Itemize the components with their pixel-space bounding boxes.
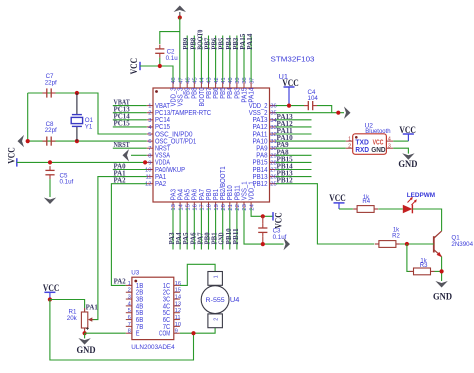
svg-text:PB8: PB8 — [190, 37, 197, 50]
wire PA1 (to R1 wiper) — [91, 177, 147, 320]
svg-text:GND: GND — [398, 159, 417, 169]
driver U3 ULN2003 body — [132, 277, 174, 339]
wire VSS_3 vertical — [179, 18, 181, 82]
svg-text:PB14: PB14 — [253, 167, 268, 174]
U2 pin 3 GND — [386, 147, 393, 149]
svg-text:VCC: VCC — [329, 193, 346, 203]
svg-text:11: 11 — [145, 175, 151, 181]
svg-text:2: 2 — [148, 111, 151, 117]
svg-text:3: 3 — [128, 294, 131, 300]
svg-text:45: 45 — [193, 77, 199, 83]
svg-text:1: 1 — [148, 104, 151, 110]
mcu U1 STM32F103 body — [153, 88, 270, 202]
power flag VCC (U2) — [399, 125, 416, 141]
power flag VCC (R1) — [43, 283, 60, 300]
capacitor C8 — [43, 140, 47, 142]
svg-text:Y1: Y1 — [85, 124, 93, 131]
svg-text:VDD_2: VDD_2 — [249, 103, 268, 110]
svg-text:RXD: RXD — [355, 147, 369, 154]
node VCC/C4 junction — [287, 104, 291, 108]
svg-text:PB10: PB10 — [227, 185, 234, 200]
svg-text:LEDPWM: LEDPWM — [407, 192, 435, 199]
svg-text:PC13/TAMPER-RTC: PC13/TAMPER-RTC — [155, 110, 211, 117]
svg-text:43: 43 — [207, 77, 213, 83]
wire U2 VCC — [393, 140, 408, 142]
ground flag VSS_1 — [284, 238, 291, 250]
module U2 Bluetooth body — [353, 134, 387, 155]
svg-text:PA1: PA1 — [155, 174, 166, 181]
capacitor C3 — [262, 224, 264, 228]
svg-text:R-555: R-555 — [206, 297, 225, 304]
wire COM to U4 pin2 node — [180, 328, 215, 333]
svg-text:VCC: VCC — [274, 212, 284, 228]
svg-text:OSC_IN/PD0: OSC_IN/PD0 — [155, 131, 193, 138]
svg-text:PB7: PB7 — [205, 37, 212, 50]
svg-text:10: 10 — [145, 168, 151, 174]
resistor R2 — [375, 243, 379, 245]
svg-text:3: 3 — [388, 144, 391, 150]
ground flag crystal rail — [18, 135, 25, 147]
svg-text:VDD_3: VDD_3 — [170, 87, 177, 106]
svg-text:PC13: PC13 — [114, 107, 131, 114]
wire VCC to R1 top — [50, 300, 85, 309]
svg-text:PA8: PA8 — [277, 149, 290, 156]
svg-text:PA1: PA1 — [114, 170, 127, 177]
svg-text:GND: GND — [371, 147, 385, 154]
svg-text:PA15: PA15 — [241, 87, 248, 102]
svg-text:PA0/WKUP: PA0/WKUP — [155, 167, 185, 174]
ground flag U2 — [402, 153, 414, 160]
svg-text:PC14: PC14 — [155, 117, 170, 124]
svg-text:PA8: PA8 — [256, 153, 267, 160]
svg-text:7: 7 — [148, 146, 151, 152]
ground flag VSSA — [123, 149, 130, 161]
svg-text:PB11: PB11 — [234, 185, 241, 200]
svg-text:1: 1 — [128, 281, 131, 287]
svg-text:46: 46 — [185, 77, 191, 83]
svg-text:36: 36 — [270, 104, 276, 110]
svg-text:PA9: PA9 — [256, 146, 267, 153]
svg-text:VBAT: VBAT — [114, 99, 131, 106]
svg-text:1: 1 — [348, 137, 351, 143]
node COM junction — [191, 331, 195, 335]
svg-text:PA10: PA10 — [253, 138, 268, 145]
svg-text:VCC: VCC — [129, 58, 139, 75]
U3 right pins — [159, 281, 182, 338]
wire VDD_2 rail — [276, 105, 304, 107]
svg-text:VDD_1: VDD_1 — [249, 181, 256, 200]
svg-text:PB6: PB6 — [212, 37, 219, 50]
svg-text:PB13: PB13 — [277, 171, 294, 178]
svg-text:3: 3 — [148, 118, 151, 124]
svg-text:18: 18 — [207, 204, 213, 210]
svg-text:VCC: VCC — [43, 283, 60, 293]
node top gnd — [178, 15, 182, 19]
wire 1C to U4 pin1 — [180, 264, 215, 285]
wire VDD_1 to VCC — [251, 208, 273, 216]
svg-text:PB14: PB14 — [277, 164, 294, 171]
svg-text:PA11: PA11 — [253, 131, 268, 138]
svg-text:8: 8 — [148, 153, 151, 159]
wire C3 leads — [262, 216, 264, 223]
svg-text:GND: GND — [219, 232, 226, 244]
wire VSSA to ground — [131, 154, 147, 156]
svg-text:PB2/BOOT1: PB2/BOOT1 — [220, 166, 227, 200]
svg-text:VCC: VCC — [373, 139, 384, 146]
svg-text:STM32F103: STM32F103 — [271, 55, 315, 64]
svg-text:PB9: PB9 — [185, 87, 192, 98]
svg-text:PA9: PA9 — [277, 142, 290, 149]
wire VCC rail to COM (bottom) — [50, 300, 194, 361]
svg-text:7: 7 — [128, 322, 131, 328]
svg-text:14: 14 — [175, 294, 182, 300]
svg-text:PB4: PB4 — [226, 37, 233, 50]
svg-text:PC15: PC15 — [155, 124, 170, 131]
svg-text:47: 47 — [178, 77, 184, 83]
mcu U1 bottom pins: stubs, numbers, names — [170, 166, 255, 210]
LED LEDPWM — [403, 197, 417, 214]
svg-text:PB12: PB12 — [277, 178, 294, 185]
svg-text:48: 48 — [171, 77, 177, 83]
wire PB12 to R2 — [276, 184, 375, 244]
wire R2 to base — [400, 243, 434, 245]
U3 left pins — [126, 281, 144, 338]
ground flag Q1 emitter — [435, 281, 447, 288]
svg-text:5: 5 — [148, 132, 151, 138]
svg-text:PA14: PA14 — [249, 87, 256, 102]
ground flag R1 — [78, 338, 90, 345]
wire C4 to VSS_2 rail — [317, 106, 332, 113]
power flag VCC (top left of U1) — [129, 58, 140, 75]
wire OSC_IN rail — [28, 93, 147, 134]
svg-text:9: 9 — [148, 160, 151, 166]
U2 pin 4 VCC — [386, 140, 393, 142]
svg-text:VSS_2: VSS_2 — [249, 110, 268, 117]
svg-text:VCC: VCC — [282, 78, 299, 88]
svg-text:2: 2 — [128, 288, 131, 294]
node VSS_2 — [336, 111, 340, 115]
transistor Q1 2N3904 — [434, 231, 442, 257]
mcu U1 right pins: stubs, numbers, names — [249, 103, 278, 188]
wire U2 GND — [393, 148, 408, 153]
wire C5 to ground — [49, 179, 51, 197]
svg-text:19: 19 — [214, 204, 220, 210]
svg-text:12: 12 — [175, 308, 181, 314]
svg-text:12: 12 — [145, 182, 151, 188]
svg-text:PA14: PA14 — [247, 33, 254, 50]
svg-text:20: 20 — [221, 204, 227, 210]
svg-text:PC15: PC15 — [114, 121, 131, 128]
wire R3 to emitter — [435, 270, 442, 272]
svg-text:PA6: PA6 — [192, 189, 199, 200]
wire gnd side vertical — [27, 93, 29, 141]
svg-text:OSC_OUT/PD1: OSC_OUT/PD1 — [155, 138, 196, 145]
svg-text:GND: GND — [77, 345, 96, 355]
wire PB14 — [276, 169, 312, 171]
svg-text:BOOT0: BOOT0 — [197, 29, 204, 50]
svg-text:42: 42 — [214, 77, 220, 83]
svg-text:PB0: PB0 — [206, 189, 213, 200]
svg-text:6: 6 — [148, 139, 151, 145]
wire base node down to R3 — [407, 244, 410, 271]
wire PA0 — [113, 169, 147, 171]
svg-text:9: 9 — [175, 329, 178, 335]
svg-text:38: 38 — [242, 77, 248, 83]
svg-text:PB8: PB8 — [192, 87, 199, 98]
wire PA8 — [276, 154, 312, 156]
svg-text:PA2: PA2 — [114, 178, 127, 185]
node base/R3 junction — [405, 242, 409, 246]
svg-text:0.1uf: 0.1uf — [60, 179, 74, 186]
svg-text:VSS_3: VSS_3 — [178, 87, 185, 106]
node VDDA junction — [143, 160, 147, 164]
capacitor C7 — [43, 92, 47, 94]
svg-text:VSS_1: VSS_1 — [241, 181, 248, 200]
wire PA10 to U2 TXD — [276, 140, 346, 142]
node R1 bottom / E junction — [83, 331, 87, 335]
svg-text:R3: R3 — [420, 263, 428, 269]
wire VCC to VDDA pin9 — [17, 161, 147, 163]
wire OSC_OUT rail — [28, 140, 147, 142]
svg-text:PA5: PA5 — [183, 232, 190, 245]
svg-text:PA12: PA12 — [253, 124, 268, 131]
svg-text:COM: COM — [159, 331, 170, 338]
svg-text:VSSA: VSSA — [155, 153, 170, 160]
svg-text:44: 44 — [200, 77, 206, 84]
node crystal top — [75, 91, 79, 95]
svg-text:PB10: PB10 — [226, 228, 233, 245]
wire emitter down — [441, 257, 443, 281]
wire PC14 — [113, 119, 147, 121]
wire E to R1 bottom — [85, 332, 126, 334]
wires top port nets PB9..PA14 — [187, 36, 251, 82]
svg-text:PB11: PB11 — [233, 228, 240, 245]
wire PA12 — [276, 126, 312, 128]
capacitor C2 — [159, 45, 161, 49]
capacitor C5 — [49, 166, 51, 170]
svg-text:PA3: PA3 — [169, 232, 176, 245]
svg-text:39: 39 — [235, 77, 241, 83]
svg-text:PB5: PB5 — [220, 87, 227, 98]
svg-text:2: 2 — [348, 144, 351, 150]
svg-text:ULN2003ADE4: ULN2003ADE4 — [131, 344, 175, 351]
svg-text:NRST: NRST — [114, 142, 131, 149]
node VCC bottom left — [48, 297, 52, 301]
svg-text:13: 13 — [171, 204, 177, 210]
power flag VCC (R4) — [329, 193, 346, 209]
svg-text:E: E — [136, 331, 140, 338]
mcu U1 left pins: stubs, numbers, names — [145, 103, 211, 188]
wire PA11 — [276, 133, 312, 135]
svg-text:2: 2 — [214, 318, 220, 321]
svg-text:PB6: PB6 — [213, 87, 220, 98]
svg-text:PB4: PB4 — [227, 87, 234, 98]
svg-text:PA1: PA1 — [86, 305, 99, 312]
svg-text:PA3: PA3 — [170, 189, 177, 200]
wire PC15 — [113, 126, 147, 128]
svg-text:PA5: PA5 — [185, 189, 192, 200]
svg-text:4: 4 — [388, 137, 391, 143]
node crystal bottom — [75, 139, 79, 143]
wire LED to collector — [412, 209, 441, 231]
svg-text:8: 8 — [128, 329, 131, 335]
svg-text:VCC: VCC — [399, 125, 416, 135]
wire PA13 — [276, 119, 312, 121]
power flag VCC (VDD_1) — [273, 212, 284, 229]
motor U4 R-555 — [201, 272, 229, 328]
node C5 junction — [48, 160, 52, 164]
svg-text:40: 40 — [228, 77, 234, 83]
svg-text:22pf: 22pf — [45, 79, 57, 86]
U2 pin 1 TXD — [346, 140, 353, 142]
svg-text:PA15: PA15 — [240, 33, 247, 50]
U2 pin 2 RXD — [346, 147, 353, 149]
svg-text:104: 104 — [308, 95, 319, 102]
ground flag VSS_2 — [344, 107, 351, 119]
wire VCC to VDD_3 — [140, 66, 173, 82]
svg-text:PA13: PA13 — [253, 117, 268, 124]
svg-text:TXD: TXD — [355, 139, 368, 146]
svg-text:PB13: PB13 — [253, 174, 268, 181]
svg-text:6: 6 — [128, 315, 131, 321]
svg-text:PB15: PB15 — [253, 160, 268, 167]
svg-text:U4: U4 — [230, 297, 240, 304]
power flag VCC (VDDA rail) — [7, 147, 17, 166]
svg-text:PA4: PA4 — [178, 189, 185, 200]
svg-text:PB15: PB15 — [277, 156, 294, 163]
svg-text:20k: 20k — [67, 315, 78, 322]
svg-text:PB0: PB0 — [205, 232, 212, 245]
svg-text:PB3: PB3 — [233, 37, 240, 50]
svg-text:37: 37 — [249, 77, 255, 83]
svg-text:PB5: PB5 — [219, 37, 226, 50]
svg-text:5: 5 — [128, 308, 131, 314]
svg-text:1: 1 — [214, 275, 220, 278]
svg-text:PA11: PA11 — [277, 128, 294, 135]
svg-text:PA7: PA7 — [199, 189, 206, 200]
capacitor C4 — [304, 105, 308, 107]
svg-text:GND: GND — [433, 291, 452, 301]
svg-text:23: 23 — [242, 204, 248, 210]
wire VCC to R4 — [339, 208, 353, 210]
wires bottom port nets PA3..PB11 — [173, 208, 237, 249]
node emitter/R3 junction — [440, 269, 444, 273]
svg-text:VBAT: VBAT — [155, 103, 171, 110]
svg-text:NRST: NRST — [155, 146, 171, 153]
svg-text:PB9: PB9 — [183, 37, 190, 50]
svg-text:PA13: PA13 — [277, 114, 294, 121]
svg-text:Bluetooth: Bluetooth — [365, 128, 391, 135]
svg-text:22pf: 22pf — [45, 127, 57, 134]
wire PB13 — [276, 176, 312, 178]
svg-text:PA10: PA10 — [277, 135, 294, 142]
ground flag top (VSS_3) — [174, 6, 186, 13]
mcu U1 top pins: stubs, numbers, names — [170, 77, 255, 107]
svg-text:VCC: VCC — [7, 147, 17, 164]
svg-text:PA6: PA6 — [190, 232, 197, 245]
svg-text:22: 22 — [235, 204, 241, 210]
svg-text:BOOT0: BOOT0 — [199, 87, 206, 106]
node C3 bottom — [261, 242, 265, 246]
wire R4 to LED — [378, 208, 403, 210]
resistor R4 — [353, 208, 357, 210]
wire PA9 to U2 RXD — [276, 147, 346, 149]
power flag VCC (above C4) — [282, 78, 299, 106]
svg-text:PA2: PA2 — [114, 278, 127, 285]
svg-text:PA0: PA0 — [114, 163, 127, 170]
svg-text:PB1: PB1 — [213, 189, 220, 200]
svg-text:R2: R2 — [392, 233, 400, 239]
svg-text:R4: R4 — [362, 199, 370, 205]
svg-text:41: 41 — [221, 77, 227, 83]
svg-text:13: 13 — [175, 301, 181, 307]
svg-text:15: 15 — [185, 204, 191, 210]
svg-text:10: 10 — [175, 322, 181, 328]
svg-text:VDDA: VDDA — [155, 160, 170, 167]
svg-text:0.1u: 0.1u — [166, 55, 179, 62]
svg-text:17: 17 — [200, 204, 206, 210]
svg-text:24: 24 — [249, 203, 255, 210]
svg-text:11: 11 — [175, 315, 181, 321]
svg-text:15: 15 — [175, 288, 181, 294]
node C3 top — [261, 214, 265, 218]
crystal Y1 — [71, 93, 82, 141]
wire PB15 — [276, 161, 312, 163]
node crystal rail gnd — [26, 139, 30, 143]
svg-text:PC14: PC14 — [114, 114, 131, 121]
potentiometer R1 — [81, 308, 93, 333]
svg-text:PA7: PA7 — [197, 232, 204, 245]
wire C2 gnd jog — [160, 32, 180, 44]
svg-text:14: 14 — [178, 203, 184, 210]
wire PA2 (to U3 1B) — [111, 184, 146, 286]
svg-text:PA12: PA12 — [277, 121, 294, 128]
svg-text:PA4: PA4 — [176, 232, 183, 245]
wire PC13 — [113, 112, 147, 114]
ground flag C5 — [44, 198, 56, 205]
svg-text:PB1: PB1 — [212, 232, 219, 245]
svg-text:16: 16 — [193, 204, 199, 210]
svg-text:PB7: PB7 — [206, 87, 213, 98]
wire VSS_2 to ground — [276, 112, 344, 114]
svg-text:U3: U3 — [131, 269, 140, 276]
svg-text:PB3: PB3 — [234, 87, 241, 98]
wire NRST — [113, 147, 147, 149]
wire C2 to VCC rail — [159, 58, 161, 66]
wire VBAT — [113, 105, 147, 107]
resistor R3 — [410, 270, 414, 272]
svg-text:21: 21 — [228, 204, 234, 210]
svg-text:PA2: PA2 — [155, 181, 166, 188]
node C2/VCC junction — [158, 64, 162, 68]
wire VSS_1 to ground — [244, 208, 284, 244]
svg-text:2N3904: 2N3904 — [451, 241, 473, 248]
